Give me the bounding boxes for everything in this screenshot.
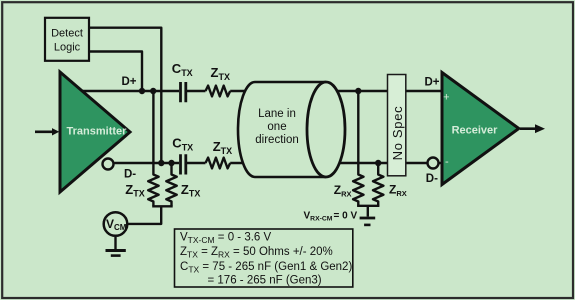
- junction: detect logic to D-: [158, 160, 164, 166]
- wire: D+ no-spec to receiver: [406, 90, 443, 92]
- wire: D+ line from transmitter to cap: [80, 90, 179, 92]
- resistor ZTX on D- (zigzag): [206, 158, 231, 169]
- wire: ZRX bottom bar to ground: [357, 206, 379, 217]
- svg-text:Transmitter: Transmitter: [67, 125, 128, 137]
- capacitor CTX plates on D-: [181, 154, 186, 174]
- svg-text:-: -: [445, 156, 449, 168]
- resistor ZTX on D+ (zigzag): [206, 86, 231, 97]
- wire: bubble to receiver: [439, 162, 444, 164]
- capacitor CTX plates on D+: [181, 82, 186, 102]
- junction: ZTX left to D+: [150, 88, 156, 94]
- labels D+ D-: [122, 76, 440, 185]
- transmitter triangle: [60, 72, 130, 192]
- receiver output arrow: [520, 124, 545, 133]
- ground (RX): [360, 218, 376, 225]
- voltage source VCM circle: [104, 212, 128, 236]
- transmitter D- inverting bubble: [103, 159, 114, 170]
- detect logic box: [45, 18, 89, 61]
- junction: detect logic to D+: [139, 88, 145, 94]
- svg-text:one: one: [267, 121, 286, 133]
- svg-text:Receiver: Receiver: [452, 125, 499, 137]
- receiver triangle: [442, 73, 519, 185]
- wire: D- no-spec to receiver bubble: [406, 162, 428, 164]
- wire: detect logic bottom output to D+: [89, 52, 142, 92]
- wire: D- cap to resistor: [187, 162, 206, 164]
- wire: D- line from bubble to cap: [115, 162, 180, 164]
- resistor ZRX vertical right (from D-): [373, 163, 383, 206]
- resistor ZTX vertical right (from D-): [166, 163, 176, 206]
- wire: D- resistor to cylinder: [230, 162, 387, 164]
- ground (VCM): [106, 237, 126, 256]
- transmission lane cylinder body: [238, 82, 326, 177]
- svg-text:CTX = 75 - 265 nF (Gen1 & Gen2: CTX = 75 - 265 nF (Gen1 & Gen2): [180, 261, 352, 275]
- wire: detect logic top output to D-: [89, 28, 161, 163]
- svg-text:Logic: Logic: [54, 42, 81, 54]
- no spec box: [388, 75, 406, 176]
- receiver D- inverting bubble: [428, 158, 439, 169]
- svg-text:D-: D-: [426, 173, 438, 185]
- junction: ZRX left to D+: [355, 88, 361, 94]
- svg-text:D-: D-: [124, 168, 136, 180]
- resistor ZTX vertical left (from D+): [148, 91, 158, 206]
- svg-text:No Spec: No Spec: [390, 106, 405, 161]
- junction: ZTX right to D-: [168, 160, 174, 166]
- junction: ZRX right to D-: [375, 160, 381, 166]
- svg-text:= 176 - 265 nF (Gen3): = 176 - 265 nF (Gen3): [208, 275, 322, 287]
- svg-text:D+: D+: [425, 77, 440, 89]
- svg-text:direction: direction: [255, 134, 298, 146]
- spec note box: [175, 229, 353, 287]
- transmission lane cylinder end cap: [307, 82, 345, 177]
- wire: ZTX bottom bar to VCM: [128, 206, 173, 224]
- resistor ZRX vertical left (from D+): [353, 91, 363, 206]
- wire: D+ resistor to cylinder: [230, 90, 387, 92]
- svg-text:Lane in: Lane in: [258, 108, 296, 120]
- svg-text:Detect: Detect: [51, 28, 83, 40]
- transmitter input arrow: [35, 128, 59, 135]
- svg-text:D+: D+: [122, 76, 137, 88]
- svg-text:+: +: [443, 91, 449, 103]
- wire: D+ cap to resistor: [187, 90, 206, 92]
- svg-text:ZTX = ZRX = 50 Ohms +/- 20%: ZTX = ZRX = 50 Ohms +/- 20%: [180, 246, 333, 260]
